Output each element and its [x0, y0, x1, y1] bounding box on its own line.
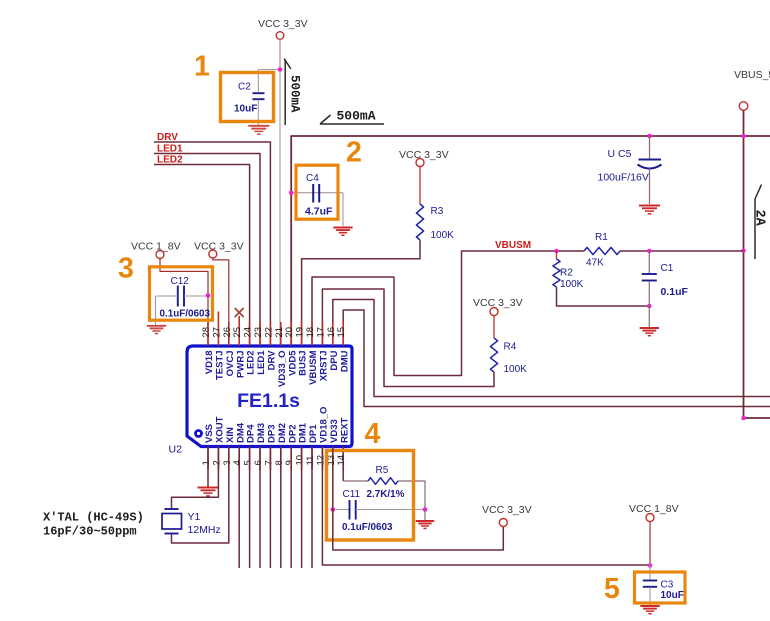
svg-text:VD33_O: VD33_O: [277, 351, 288, 387]
svg-text:TESTJ: TESTJ: [215, 351, 226, 381]
svg-text:VBUS_5V: VBUS_5V: [734, 69, 770, 81]
wire crystal to XIN pin3: [172, 447, 229, 544]
ground below C4: [333, 227, 352, 229]
pin 26 OVCJ top stub: [228, 322, 230, 346]
wire VBUS vertical: [743, 110, 745, 418]
svg-text:LED2: LED2: [246, 351, 257, 375]
svg-text:4.7uF: 4.7uF: [305, 206, 333, 218]
annotation 500mA vertical arrow: [284, 60, 286, 126]
pin 12 VD18_O bottom stub: [321, 447, 323, 471]
svg-text:PWRJ: PWRJ: [235, 351, 246, 378]
svg-text:24: 24: [243, 327, 254, 338]
svg-text:R1: R1: [595, 232, 608, 243]
svg-text:0.1uF: 0.1uF: [661, 286, 689, 298]
svg-text:DM1: DM1: [298, 422, 309, 443]
svg-text:10uF: 10uF: [234, 104, 257, 115]
svg-text:19: 19: [295, 327, 306, 338]
junction VBUS lower: [741, 416, 746, 421]
svg-text:14: 14: [336, 455, 347, 466]
pin 23 LED1 top stub: [259, 322, 261, 346]
wire XRSTJ pin17 to R4: [322, 289, 494, 387]
svg-text:DM3: DM3: [256, 423, 267, 443]
highlight box 1: [221, 73, 274, 122]
capacitor C11: [333, 509, 350, 511]
crystal Y1: [165, 508, 179, 510]
resistor R2: [556, 251, 558, 259]
svg-text:2: 2: [346, 137, 362, 169]
svg-text:100K: 100K: [504, 364, 528, 375]
svg-text:1: 1: [201, 460, 212, 465]
svg-text:BUSJ: BUSJ: [298, 351, 309, 376]
ground below C2: [248, 125, 269, 127]
svg-text:12: 12: [315, 455, 326, 466]
resistor R3: [419, 167, 421, 205]
wire LED2 net: [154, 165, 250, 346]
svg-text:4: 4: [232, 460, 243, 465]
svg-text:2A: 2A: [752, 210, 767, 227]
svg-text:3: 3: [222, 460, 233, 465]
pin 10 DM1 bottom stub: [301, 447, 303, 471]
svg-text:U2: U2: [169, 444, 183, 456]
svg-text:C1: C1: [661, 263, 674, 274]
svg-text:VD18_O: VD18_O: [319, 407, 330, 443]
svg-text:8: 8: [274, 460, 285, 465]
svg-text:DRV: DRV: [267, 350, 278, 371]
wire VCC_1_8V into C12 to pin 28 VD18: [160, 259, 208, 346]
svg-text:XOUT: XOUT: [215, 416, 226, 443]
svg-text:DP2: DP2: [287, 425, 298, 443]
wire R3 to pin 19 BUSJ: [302, 240, 420, 345]
annotation 2A arrow: [754, 199, 756, 259]
resistor R5: [343, 480, 368, 482]
wire DMU pin15 to right edge: [343, 310, 770, 407]
pin 20 VDD5 top stub: [290, 322, 292, 346]
highlight box 3: [150, 267, 213, 320]
svg-text:15: 15: [336, 327, 347, 338]
capacitor C12: [177, 286, 179, 307]
svg-text:5: 5: [243, 460, 254, 465]
svg-text:9: 9: [284, 460, 295, 465]
svg-text:11: 11: [305, 456, 316, 466]
svg-text:VCC 3_3V: VCC 3_3V: [194, 241, 244, 253]
svg-text:C2: C2: [238, 82, 251, 93]
svg-text:0.1uF/0603: 0.1uF/0603: [160, 309, 211, 320]
pin 14 REXT bottom stub: [342, 447, 344, 471]
svg-text:DP3: DP3: [267, 425, 278, 443]
svg-text:VCC 1_8V: VCC 1_8V: [629, 503, 679, 515]
junction VBUSM/R2: [554, 249, 559, 254]
wire R2 bottom to C1 bottom: [557, 287, 650, 306]
pin 13 VD33 bottom stub: [332, 447, 334, 471]
pin 2 XOUT bottom stub: [217, 447, 219, 471]
svg-text:47K: 47K: [586, 258, 604, 269]
svg-text:C11: C11: [343, 489, 361, 500]
svg-text:VDD5: VDD5: [287, 350, 298, 376]
svg-text:6: 6: [253, 460, 264, 465]
svg-text:VCC 3_3V: VCC 3_3V: [258, 18, 308, 30]
pin 9 DP2 bottom stub: [290, 447, 292, 471]
svg-text:7: 7: [263, 460, 274, 465]
capacitor C4: [291, 192, 343, 194]
svg-text:R4: R4: [504, 342, 517, 353]
wire DPU pin16 to right edge: [333, 300, 770, 397]
pin 3 XIN bottom stub: [228, 447, 230, 471]
pin 22 DRV top stub: [269, 322, 271, 346]
pin 6 DM3 bottom stub: [259, 447, 261, 471]
pin 4 DM4 bottom stub: [238, 447, 240, 471]
svg-text:XRSTJ: XRSTJ: [319, 351, 330, 382]
svg-text:C12: C12: [171, 276, 190, 287]
svg-text:R3: R3: [431, 206, 444, 217]
ground below C5: [639, 205, 660, 207]
wire VD18_O pin12 to C3: [322, 447, 650, 566]
wire C2 tap: [258, 70, 280, 93]
svg-text:2: 2: [211, 460, 222, 465]
junction R1/VBUS: [741, 249, 746, 254]
svg-text:10uF: 10uF: [661, 590, 684, 601]
junction R1/C1: [647, 249, 652, 254]
svg-text:OVCJ: OVCJ: [225, 351, 236, 377]
wire R1 right to VBUS: [620, 250, 744, 252]
svg-text:VD33: VD33: [329, 419, 340, 443]
pin 16 DPU top stub: [332, 322, 334, 346]
svg-text:VCC 3_3V: VCC 3_3V: [482, 504, 532, 516]
pin 15 DMU top stub: [342, 322, 344, 346]
svg-text:4: 4: [365, 418, 381, 450]
wire VDD5 5V bus: [291, 136, 770, 345]
svg-text:VSS: VSS: [204, 424, 215, 443]
highlight box 2: [296, 165, 338, 219]
svg-text:5: 5: [604, 573, 620, 605]
svg-text:DM2: DM2: [277, 423, 288, 443]
svg-text:C4: C4: [306, 173, 319, 184]
svg-text:LED1: LED1: [157, 144, 183, 155]
svg-text:R2: R2: [560, 268, 573, 279]
pin 25 PWRJ top stub: [238, 316, 240, 346]
capacitor C1: [648, 251, 650, 273]
svg-text:21: 21: [274, 327, 285, 338]
ground at box4: [424, 510, 426, 521]
svg-text:100K: 100K: [431, 230, 455, 241]
junction VCC_1_8V/C3: [648, 563, 653, 568]
junction C5/5V bus: [647, 134, 652, 139]
resistor R4: [493, 316, 495, 339]
svg-text:10: 10: [295, 455, 306, 466]
junction C11/R5/ground: [423, 507, 428, 512]
resistor R1: [584, 247, 620, 254]
svg-text:20: 20: [284, 327, 295, 338]
svg-text:VBUSM: VBUSM: [308, 350, 319, 384]
svg-text:LED1: LED1: [256, 350, 267, 375]
svg-text:DMU: DMU: [339, 350, 350, 372]
capacitor C3: [649, 565, 651, 580]
pin 28 VD18 top stub: [207, 322, 209, 346]
pin 11 DP1 bottom stub: [311, 447, 313, 471]
wire DRV net: [154, 142, 270, 345]
wire pin1 VSS to ground: [207, 447, 209, 487]
wire XOUT pin2 to crystal: [172, 447, 219, 509]
capacitor C5 (polarized): [649, 136, 651, 159]
svg-text:1: 1: [194, 51, 210, 83]
wire VCC_3_3V to pin 26 OVCJ: [213, 258, 229, 345]
svg-text:500mA: 500mA: [337, 109, 376, 124]
svg-text:100uF/16V: 100uF/16V: [598, 172, 649, 184]
svg-text:23: 23: [253, 327, 264, 338]
svg-text:12MHz: 12MHz: [188, 524, 221, 536]
capacitor C2: [253, 92, 265, 94]
junction C11/VD33: [331, 507, 336, 512]
pin 1 VSS bottom stub: [207, 447, 209, 471]
ground pin 1: [198, 487, 219, 489]
svg-text:VCC 1_8V: VCC 1_8V: [131, 241, 181, 253]
svg-text:DP1: DP1: [308, 424, 319, 443]
svg-text:DM4: DM4: [235, 422, 246, 443]
pin 17 XRSTJ top stub: [321, 322, 323, 346]
wire VCC_3_3V vertical to pin 21 VD33_O: [279, 39, 281, 69]
svg-text:26: 26: [222, 327, 233, 338]
svg-text:18: 18: [305, 327, 316, 338]
svg-text:X'TAL (HC-49S): X'TAL (HC-49S): [43, 511, 144, 525]
ground below C1: [648, 306, 650, 328]
svg-text:500mA: 500mA: [288, 75, 302, 113]
pin 24 LED2 top stub: [249, 322, 251, 346]
svg-text:VD18: VD18: [204, 351, 215, 375]
svg-text:16: 16: [326, 327, 337, 338]
pin 27 TESTJ top stub: [217, 312, 219, 346]
svg-text:U C5: U C5: [608, 148, 632, 160]
junction VBUS/5V bus: [741, 134, 746, 139]
no-connect X on pin 25 PWRJ: [235, 308, 244, 317]
wire VD33 pin13 to VCC_3_3V: [333, 447, 504, 551]
ground below C12: [147, 325, 166, 327]
wire REXT pin14 into box4: [342, 447, 344, 482]
svg-text:R5: R5: [376, 465, 389, 476]
op chip U2 FE1.1s: [187, 346, 352, 447]
svg-text:VBUSM: VBUSM: [495, 240, 531, 251]
svg-text:VCC 3_3V: VCC 3_3V: [473, 297, 523, 309]
svg-text:22: 22: [263, 327, 274, 338]
svg-text:25: 25: [232, 327, 243, 338]
svg-text:28: 28: [201, 327, 212, 338]
svg-text:DPU: DPU: [329, 350, 340, 370]
wires data pins DM4..DP1: [238, 447, 240, 569]
pin 7 DP3 bottom stub: [269, 447, 271, 471]
svg-text:Y1: Y1: [188, 511, 201, 523]
svg-text:DP4: DP4: [246, 424, 257, 443]
svg-text:3: 3: [118, 253, 134, 285]
wire VBUS stub right: [744, 417, 770, 419]
ground below C3: [640, 605, 659, 607]
junction VCC_3_3V/C2: [278, 67, 283, 72]
svg-text:XIN: XIN: [225, 427, 236, 443]
svg-text:2.7K/1%: 2.7K/1%: [367, 489, 405, 500]
junction R2/C1 bottom: [647, 304, 652, 309]
highlight box 5: [635, 572, 686, 603]
pin 8 DM2 bottom stub: [280, 447, 282, 471]
svg-text:100K: 100K: [560, 279, 584, 290]
pin 19 BUSJ top stub: [301, 322, 303, 346]
svg-text:0.1uF/0603: 0.1uF/0603: [342, 522, 393, 533]
highlight box 4: [327, 451, 414, 541]
svg-text:17: 17: [315, 327, 326, 338]
svg-text:LED2: LED2: [157, 155, 183, 166]
svg-text:16pF/30~50ppm: 16pF/30~50ppm: [43, 525, 137, 539]
svg-text:27: 27: [211, 327, 222, 338]
pin 1 indicator dot: [194, 429, 203, 438]
junction VDD5/C4: [289, 190, 294, 195]
svg-text:VCC 3_3V: VCC 3_3V: [399, 149, 449, 161]
svg-text:FE1.1s: FE1.1s: [237, 390, 300, 412]
pin 5 DP4 bottom stub: [249, 447, 251, 471]
wire LED1 net: [154, 154, 260, 346]
svg-text:REXT: REXT: [339, 417, 350, 443]
svg-text:DRV: DRV: [157, 132, 178, 143]
junction C12/VD18: [206, 293, 211, 298]
svg-text:C3: C3: [661, 580, 674, 591]
pin 21 VD33_O top stub: [280, 322, 282, 346]
pin 18 VBUSM top stub: [311, 322, 313, 346]
